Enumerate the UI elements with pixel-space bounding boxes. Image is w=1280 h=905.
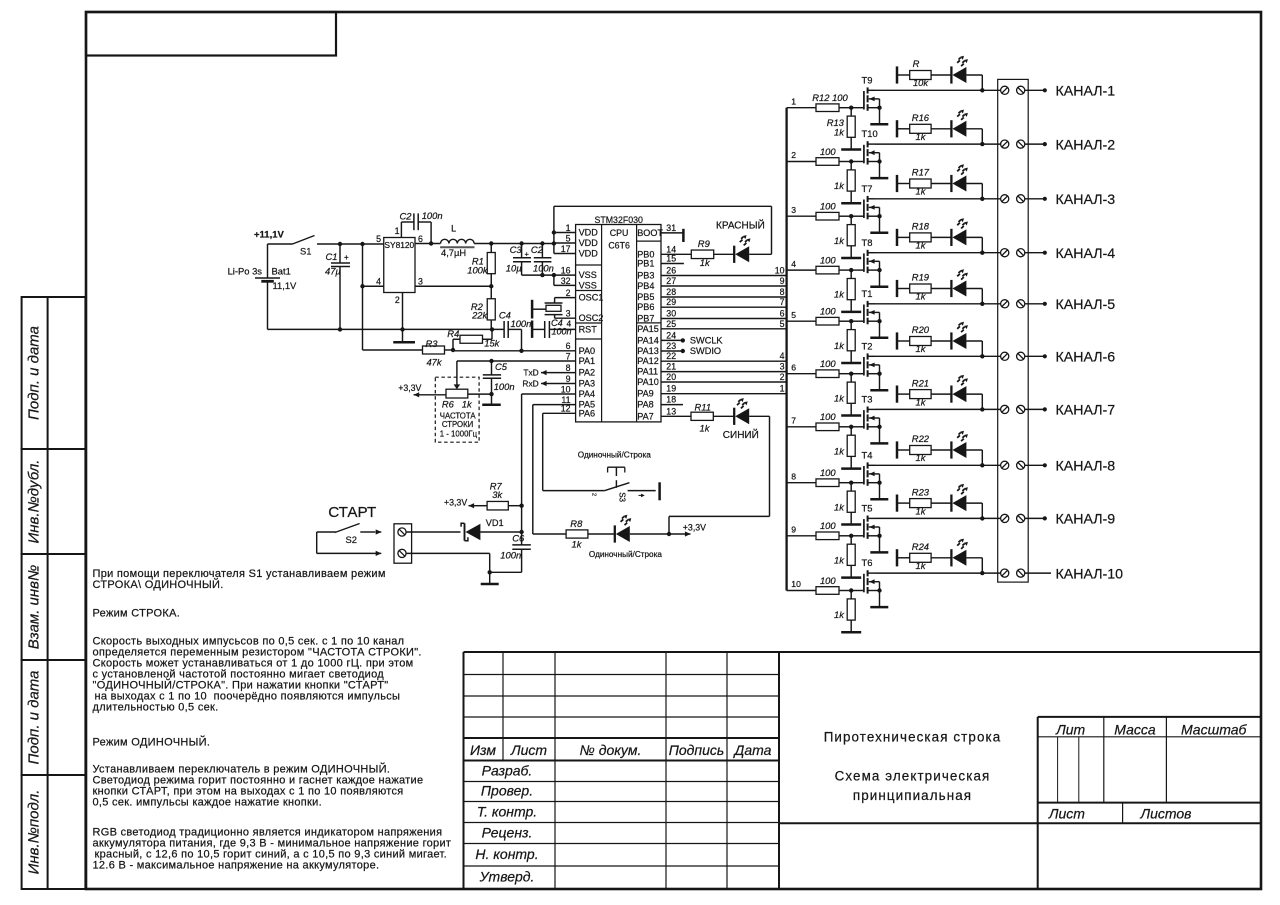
- wire MCU to bus (channel 9): [661, 276, 787, 286]
- transistor T4 (MOSFET): [862, 449, 882, 499]
- svg-text:СТРОКА\ ОДИНОЧНЫЙ.: СТРОКА\ ОДИНОЧНЫЙ.: [93, 578, 224, 591]
- svg-text:Инв.№дубл.: Инв.№дубл.: [26, 460, 43, 544]
- resistor R 10k (LED, канал 1): [910, 58, 952, 88]
- svg-text:7: 7: [791, 416, 796, 426]
- svg-text:4: 4: [791, 259, 796, 269]
- svg-text:R6: R6: [442, 399, 455, 410]
- svg-text:S3: S3: [618, 492, 627, 502]
- svg-text:1k: 1k: [916, 452, 927, 463]
- svg-text:100k: 100k: [467, 264, 489, 275]
- resistor 1k (gate pulldown, канал 9): [834, 536, 855, 578]
- svg-text:2: 2: [395, 295, 400, 305]
- label КАНАЛ-8: [1056, 459, 1116, 475]
- ground (source T3): [870, 442, 888, 445]
- svg-text:PB7: PB7: [637, 314, 654, 324]
- svg-text:100: 100: [820, 306, 836, 317]
- node КАНАЛ-4: [1025, 251, 1047, 255]
- svg-text:КАНАЛ-6: КАНАЛ-6: [1056, 350, 1116, 366]
- svg-text:S1: S1: [300, 246, 311, 257]
- resistor 1k (gate pulldown, канал 3): [834, 216, 855, 258]
- left margin stamp boxes: [22, 297, 86, 889]
- svg-text:PA4: PA4: [579, 389, 596, 399]
- svg-text:23: 23: [666, 341, 676, 351]
- svg-text:1k: 1k: [834, 180, 845, 191]
- svg-text:C2: C2: [400, 211, 413, 222]
- capacitor C1 47µ: [325, 244, 350, 329]
- microcontroller U STM32F030: [576, 215, 664, 422]
- svg-text:Листов: Листов: [1140, 806, 1192, 822]
- svg-text:STM32F030: STM32F030: [594, 215, 643, 225]
- node channel-10 gate from bus: [787, 579, 816, 590]
- resistor R2 22k: [471, 286, 495, 329]
- transistor T1 (MOSFET): [862, 288, 882, 338]
- svg-text:PA15: PA15: [637, 324, 659, 334]
- wire upper screw to VD1: [406, 531, 460, 533]
- resistor 1k (gate pulldown, канал 8): [834, 483, 855, 525]
- svg-text:+3,3V: +3,3V: [444, 497, 467, 507]
- svg-text:VDD: VDD: [579, 249, 599, 259]
- wire SY8120 pin 3 feedback: [415, 284, 493, 288]
- supply bar (LED branch, канал 10): [897, 549, 910, 566]
- resistor 1k (gate pulldown, канал 1): [827, 108, 856, 150]
- svg-text:26: 26: [666, 266, 676, 276]
- svg-text:1 - 1000Гц: 1 - 1000Гц: [440, 429, 478, 438]
- svg-text:OSC2: OSC2: [579, 313, 604, 323]
- LED indicator (канал 9): [951, 484, 982, 519]
- inductor L 4,7µH: [440, 223, 474, 258]
- ground (gate pulldown, канал 5): [841, 362, 861, 365]
- svg-text:0,5 сек. импульсы каждое нажат: 0,5 сек. импульсы каждое нажатие кнопки.: [93, 797, 322, 809]
- svg-text:9: 9: [566, 374, 571, 384]
- ground (source T9): [870, 123, 888, 126]
- terminal screws (канал 6): [1001, 352, 1025, 360]
- svg-text:Подпись: Подпись: [669, 742, 725, 758]
- ground (source T1): [870, 337, 888, 340]
- svg-text:1k: 1k: [572, 538, 583, 549]
- svg-text:Дата: Дата: [733, 742, 772, 758]
- svg-text:T7: T7: [862, 183, 873, 194]
- svg-text:1k: 1k: [834, 235, 845, 246]
- switch S3 Одиночный/Строка: [578, 450, 656, 502]
- svg-text:PA1: PA1: [579, 356, 596, 366]
- label +3,3V (R8 LED): [670, 523, 707, 537]
- svg-text:PA10: PA10: [637, 377, 659, 387]
- resistor R24 1k (LED, канал 10): [910, 541, 952, 571]
- svg-text:КАНАЛ-1: КАНАЛ-1: [1056, 84, 1116, 100]
- svg-text:1k: 1k: [916, 505, 927, 516]
- wire PB1 stub: [661, 263, 684, 265]
- resistor 1k (gate pulldown, канал 5): [834, 321, 855, 363]
- ground (gate pulldown, канал 1): [841, 148, 861, 151]
- supply bar (LED branch, канал 4): [897, 229, 910, 246]
- svg-text:R12 100: R12 100: [812, 92, 848, 103]
- label КАНАЛ-2: [1056, 137, 1116, 153]
- svg-text:1: 1: [395, 226, 400, 236]
- ground (source T8): [870, 285, 888, 288]
- node КАНАЛ-1: [1025, 88, 1047, 92]
- svg-text:СТРОКИ: СТРОКИ: [442, 420, 473, 429]
- svg-text:T9: T9: [862, 74, 873, 85]
- wire drain to terminal (канал 4): [875, 251, 1001, 255]
- label КАНАЛ-1: [1056, 84, 1116, 100]
- svg-text:19: 19: [666, 384, 676, 394]
- wire drain to terminal (канал 1): [875, 88, 1001, 92]
- svg-text:C5: C5: [495, 361, 508, 372]
- terminal screws (канал 8): [1001, 461, 1025, 469]
- svg-text:100n: 100n: [552, 326, 572, 336]
- ground (gate pulldown, канал 7): [841, 467, 861, 470]
- svg-text:25: 25: [666, 319, 676, 329]
- label +3,3V (R6): [398, 383, 421, 398]
- terminal screws (канал 9): [1001, 514, 1025, 522]
- svg-text:S2: S2: [346, 534, 357, 545]
- svg-text:T3: T3: [862, 394, 873, 405]
- wires MCU VDD pins 1,5,17: [552, 230, 576, 253]
- svg-text:1k: 1k: [834, 126, 845, 137]
- plug arrows S2 to terminal: [360, 529, 381, 556]
- resistor R22 1k (LED, канал 8): [910, 433, 952, 463]
- wire blue LED return to +3,3V node: [669, 416, 770, 534]
- svg-text:11,1V: 11,1V: [273, 280, 298, 291]
- svg-text:1k: 1k: [462, 399, 473, 410]
- label КАНАЛ-7: [1056, 403, 1116, 419]
- resistor R17 1k (LED, канал 3): [910, 167, 952, 197]
- diode VD1 (Schottky): [461, 518, 521, 541]
- svg-text:PA14: PA14: [637, 335, 659, 345]
- svg-text:Bat1: Bat1: [272, 266, 291, 277]
- ground (gate pulldown, канал 10): [841, 631, 861, 634]
- supply bar (LED branch, канал 7): [897, 386, 910, 403]
- svg-text:30: 30: [666, 309, 676, 319]
- resistor R3 47k: [363, 286, 445, 367]
- svg-text:T1: T1: [862, 288, 873, 299]
- terminal screws (канал 1): [1001, 86, 1025, 94]
- wire red LED to VDD rail: [554, 206, 772, 254]
- svg-text:Подп. и дата: Подп. и дата: [26, 326, 43, 420]
- resistor 100 (gate, канал 8): [816, 467, 863, 487]
- label СТАРТ: [328, 504, 376, 521]
- svg-text:47k: 47k: [426, 357, 442, 368]
- resistor R19 1k (LED, канал 5): [910, 272, 952, 302]
- svg-text:27: 27: [666, 276, 676, 286]
- wire MCU to bus (channel 7): [661, 297, 787, 307]
- svg-text:PA9: PA9: [637, 389, 654, 399]
- svg-text:100: 100: [820, 358, 836, 369]
- MCU right pin numbers: [666, 223, 676, 416]
- node КАНАЛ-6: [1025, 354, 1047, 358]
- svg-text:Режим ОДИНОЧНЫЙ.: Режим ОДИНОЧНЫЙ.: [93, 736, 211, 749]
- svg-text:L: L: [451, 223, 456, 233]
- svg-text:10µ: 10µ: [506, 263, 522, 274]
- node VD1 / PA4: [519, 506, 523, 545]
- node КАНАЛ-8: [1025, 463, 1047, 467]
- switch S1: [268, 236, 315, 257]
- svg-text:1k: 1k: [834, 609, 845, 620]
- svg-text:100n: 100n: [422, 210, 443, 221]
- +3,3V rail from L to MCU VDD: [474, 241, 556, 245]
- svg-text:2: 2: [591, 493, 597, 496]
- svg-text:R23: R23: [912, 486, 930, 497]
- svg-text:длительностью 0,5 сек.: длительностью 0,5 сек.: [93, 702, 219, 714]
- svg-text:28: 28: [666, 287, 676, 297]
- ground (gate pulldown, канал 6): [841, 414, 861, 417]
- svg-text:PA11: PA11: [637, 367, 658, 377]
- svg-text:22k: 22k: [471, 310, 488, 321]
- description text block: [93, 568, 452, 872]
- svg-text:1k: 1k: [916, 186, 927, 197]
- svg-text:№ докум.: № докум.: [580, 742, 642, 758]
- svg-text:КАНАЛ-4: КАНАЛ-4: [1056, 246, 1116, 262]
- label КАНАЛ-5: [1056, 297, 1116, 313]
- ground (source T2): [870, 389, 888, 392]
- label КАНАЛ-3: [1056, 192, 1116, 208]
- svg-text:+11,1V: +11,1V: [254, 230, 285, 241]
- ground (S2 / C6): [481, 583, 499, 586]
- svg-text:CPU: CPU: [610, 228, 629, 238]
- terminal screws (канал 4): [1001, 249, 1025, 257]
- svg-text:6: 6: [780, 309, 785, 319]
- LED indicator (канал 10): [951, 539, 982, 574]
- SWCLK node (PA14): [661, 335, 723, 345]
- svg-text:5: 5: [376, 234, 381, 244]
- resistor R8 1k: [566, 518, 615, 549]
- switch S2: [317, 524, 376, 554]
- svg-text:R24: R24: [912, 541, 929, 552]
- resistor 100 (gate, канал 5): [816, 306, 863, 326]
- svg-text:3: 3: [566, 309, 571, 319]
- svg-text:100: 100: [820, 411, 836, 422]
- svg-text:1k: 1k: [916, 560, 927, 571]
- transistor T3 (MOSFET): [862, 394, 882, 444]
- wires MCU VSS pins 16,32: [522, 273, 576, 286]
- svg-text:R3: R3: [426, 338, 439, 349]
- svg-text:+: +: [344, 253, 349, 262]
- svg-text:PA0: PA0: [579, 346, 596, 356]
- svg-text:PA6: PA6: [579, 408, 596, 418]
- svg-text:Li-Po 3s: Li-Po 3s: [228, 266, 263, 277]
- svg-text:Изм: Изм: [470, 742, 496, 758]
- svg-text:6: 6: [791, 362, 796, 372]
- svg-text:100: 100: [820, 201, 836, 212]
- transistor T6 (MOSFET): [862, 557, 882, 607]
- wire SY8120 pin 2 to ground: [402, 293, 404, 342]
- svg-text:15k: 15k: [484, 337, 500, 348]
- wire drain to terminal (канал 8): [875, 463, 1001, 467]
- resistor R18 1k (LED, канал 4): [910, 221, 952, 251]
- ground (source T4): [870, 498, 888, 501]
- svg-text:T6: T6: [862, 557, 873, 568]
- LED indicator (канал 5): [951, 269, 982, 304]
- wire КАНАЛ-10: [1025, 572, 1051, 574]
- svg-text:100n: 100n: [533, 263, 554, 274]
- svg-text:7: 7: [566, 351, 571, 361]
- wire drain to terminal (канал 9): [875, 516, 1001, 520]
- wire drain to terminal (канал 7): [875, 407, 1001, 411]
- svg-text:100n: 100n: [494, 381, 515, 392]
- svg-text:R16: R16: [912, 112, 930, 123]
- capacitor C2 100n (VDD decoupling): [531, 244, 554, 276]
- svg-text:8: 8: [780, 287, 785, 297]
- svg-text:29: 29: [666, 297, 676, 307]
- svg-text:24: 24: [666, 330, 676, 340]
- svg-text:PA3: PA3: [579, 379, 596, 389]
- svg-text:VDD: VDD: [579, 238, 599, 248]
- svg-text:100: 100: [820, 467, 836, 478]
- svg-text:4: 4: [376, 277, 381, 287]
- resistor 1k (gate pulldown, канал 6): [834, 374, 855, 416]
- resistor 100 (gate, канал 3): [816, 201, 863, 221]
- resistor 1k (gate pulldown, канал 2): [834, 162, 855, 204]
- label КАНАЛ-4: [1056, 246, 1116, 262]
- terminator bar (BOOT): [682, 229, 685, 242]
- svg-text:8: 8: [566, 363, 571, 373]
- LED СИНИЙ (blue): [723, 398, 770, 441]
- wire drain to terminal (канал 5): [875, 302, 1001, 306]
- potentiometer R6 1k: [419, 361, 492, 438]
- svg-text:20: 20: [666, 372, 676, 382]
- wire MCU to bus (channel 5): [661, 319, 787, 329]
- node channel-2 gate from bus: [787, 150, 816, 161]
- wire MCU to bus (channel 2): [661, 372, 787, 382]
- capacitor C5 100n: [483, 361, 515, 405]
- svg-text:PA8: PA8: [637, 400, 654, 410]
- svg-text:1: 1: [780, 384, 785, 394]
- label +11,1V: [254, 230, 285, 241]
- SWDIO node (PA13): [661, 346, 721, 356]
- svg-text:C6: C6: [512, 532, 525, 543]
- svg-text:ЧАСТОТА: ЧАСТОТА: [440, 411, 477, 420]
- svg-text:RST: RST: [579, 324, 598, 334]
- node channel-4 gate from bus: [787, 259, 816, 270]
- svg-text:3: 3: [791, 205, 796, 215]
- LED indicator (канал 2): [951, 110, 982, 145]
- svg-text:C2: C2: [531, 244, 544, 255]
- svg-text:T5: T5: [862, 503, 873, 514]
- svg-text:Одиночный/Строка: Одиночный/Строка: [578, 450, 651, 459]
- svg-text:R17: R17: [912, 167, 930, 178]
- wire MCU to bus (channel 1): [661, 384, 787, 394]
- wire SY8120 pin 4: [360, 244, 383, 288]
- terminal screws (канал 10): [1001, 569, 1025, 577]
- svg-text:6: 6: [418, 234, 423, 244]
- svg-text:SY8120: SY8120: [384, 240, 414, 250]
- svg-text:31: 31: [666, 223, 676, 233]
- potentiometer R6 1k dashed block: [435, 377, 479, 442]
- wire PA8 stub: [661, 404, 683, 406]
- svg-text:1: 1: [791, 96, 796, 106]
- resistor R16 1k (LED, канал 2): [910, 112, 952, 142]
- svg-text:10k: 10k: [913, 77, 929, 88]
- svg-text:5: 5: [566, 233, 571, 243]
- svg-text:КРАСНЫЙ: КРАСНЫЙ: [716, 219, 765, 232]
- svg-text:PA12: PA12: [637, 356, 659, 366]
- svg-text:1k: 1k: [700, 257, 711, 268]
- node КАНАЛ-2: [1025, 142, 1047, 146]
- top-left stamp box: [86, 12, 336, 56]
- label КАНАЛ-10: [1056, 566, 1124, 582]
- svg-text:PB1: PB1: [637, 259, 654, 269]
- resistor 1k (gate pulldown, канал 7): [834, 427, 855, 469]
- svg-text:T2: T2: [862, 340, 873, 351]
- svg-text:КАНАЛ-8: КАНАЛ-8: [1056, 459, 1116, 475]
- svg-text:СТАРТ: СТАРТ: [328, 504, 376, 521]
- svg-text:Разраб.: Разраб.: [482, 763, 533, 779]
- capacitor C4 100n (RST): [533, 318, 576, 338]
- svg-text:3: 3: [418, 277, 423, 287]
- capacitor C4 100n (on ground rail): [499, 309, 532, 351]
- svg-text:9: 9: [780, 276, 785, 286]
- svg-text:1k: 1k: [916, 131, 927, 142]
- svg-text:Лит: Лит: [1055, 722, 1085, 738]
- capacitor C2 100n (bootstrap): [400, 210, 443, 244]
- svg-text:10: 10: [775, 266, 785, 276]
- svg-text:OSC1: OSC1: [579, 293, 604, 303]
- wire drain to terminal (канал 3): [875, 197, 1001, 201]
- svg-text:Лист: Лист: [510, 742, 547, 758]
- svg-text:1k: 1k: [834, 392, 845, 403]
- svg-text:КАНАЛ-5: КАНАЛ-5: [1056, 297, 1116, 313]
- svg-text:100: 100: [820, 254, 836, 265]
- LED indicator (канал 3): [951, 164, 982, 199]
- svg-text:3: 3: [780, 362, 785, 372]
- wire drain to terminal (канал 2): [875, 142, 1001, 146]
- svg-text:R9: R9: [698, 238, 711, 249]
- svg-text:10: 10: [561, 384, 571, 394]
- resistor R7 3k pull-up: [474, 480, 522, 510]
- transistor T2 (MOSFET): [862, 340, 882, 390]
- labels TxD RxD (PA2, PA3): [522, 368, 575, 389]
- label КАНАЛ-9: [1056, 512, 1116, 528]
- ground (gate pulldown, канал 4): [841, 311, 861, 314]
- resistor 100 (gate, канал 10): [816, 575, 863, 595]
- svg-text:SWDIO: SWDIO: [690, 346, 721, 356]
- svg-text:VSS: VSS: [579, 270, 597, 280]
- node channel-3 gate from bus: [787, 205, 816, 216]
- svg-text:C4: C4: [499, 309, 511, 320]
- resistor R9 1k: [661, 238, 734, 268]
- svg-text:5: 5: [780, 319, 785, 329]
- resistor 100 (gate, канал 1): [812, 92, 863, 112]
- svg-text:+3,3V: +3,3V: [683, 523, 706, 533]
- node КАНАЛ-9: [1025, 516, 1047, 520]
- svg-text:T4: T4: [862, 449, 873, 460]
- ground (gate pulldown, канал 2): [841, 202, 861, 205]
- supply bar (LED branch, канал 1): [897, 66, 910, 83]
- svg-text:21: 21: [666, 362, 676, 372]
- svg-text:Н. контр.: Н. контр.: [475, 846, 538, 862]
- svg-text:C3: C3: [510, 244, 523, 255]
- transistor T10 (MOSFET): [862, 128, 882, 178]
- svg-text:R19: R19: [912, 272, 930, 283]
- svg-text:PB4: PB4: [637, 281, 654, 291]
- start terminal block: [394, 524, 412, 563]
- svg-text:100n: 100n: [500, 550, 521, 561]
- wire bundle (bus): [785, 108, 787, 591]
- transistor T5 (MOSFET): [862, 503, 882, 553]
- svg-text:TxD: TxD: [523, 368, 538, 378]
- svg-text:PB5: PB5: [637, 292, 654, 302]
- resistor R21 1k (LED, канал 7): [910, 377, 952, 407]
- wire PA1 to R6 wiper: [457, 359, 576, 363]
- svg-text:4: 4: [780, 351, 785, 361]
- resistor 100 (gate, канал 6): [816, 358, 863, 378]
- svg-text:R22: R22: [912, 433, 930, 444]
- svg-text:VD1: VD1: [486, 518, 504, 528]
- svg-text:2: 2: [566, 288, 571, 298]
- wire PA4 to start node: [519, 394, 575, 508]
- svg-text:Одиночный/Строка: Одиночный/Строка: [589, 550, 662, 559]
- wire MCU to bus (channel 6): [661, 309, 787, 319]
